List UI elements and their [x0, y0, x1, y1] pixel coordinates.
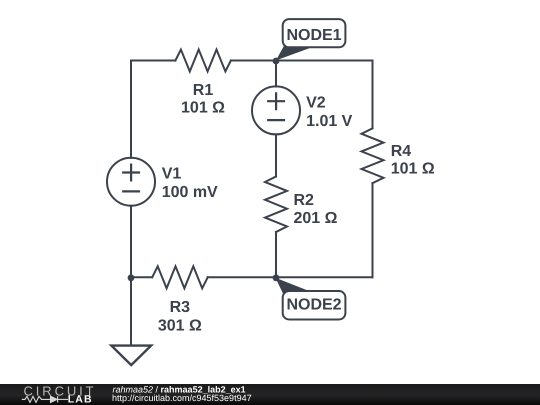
resistor R2	[265, 177, 287, 233]
svg-text:R1: R1	[193, 82, 214, 99]
ground symbol	[111, 346, 151, 366]
svg-text:101 Ω: 101 Ω	[391, 161, 435, 178]
wire bottom-left horizontal	[131, 276, 152, 278]
logo line to LAB	[58, 398, 68, 400]
svg-text:301 Ω: 301 Ω	[158, 318, 202, 335]
wire right vertical upper	[372, 61, 374, 129]
resistor R4	[362, 128, 384, 183]
wire top-left horizontal	[131, 60, 175, 62]
svg-text:http://circuitlab.com/c945f53e: http://circuitlab.com/c945f53e9t947	[112, 393, 252, 403]
svg-text:LAB: LAB	[68, 394, 93, 405]
svg-text:NODE1: NODE1	[286, 27, 341, 44]
NODE1 callout pointer	[276, 46, 312, 61]
footer bar	[0, 384, 540, 405]
voltage source V1	[107, 158, 155, 206]
wire R2 to node2	[275, 232, 277, 277]
svg-text:V1: V1	[162, 165, 182, 182]
NODE1 label box	[283, 19, 346, 47]
svg-text:201 Ω: 201 Ω	[294, 210, 338, 227]
V2 plus sign	[268, 93, 284, 109]
resistor R3	[152, 266, 208, 288]
wire V2 to R2	[275, 134, 277, 176]
NODE2 callout pointer	[275, 278, 311, 294]
wire left vertical upper	[130, 61, 132, 158]
wire right vertical lower	[372, 183, 374, 277]
NODE2 label box	[283, 291, 346, 320]
svg-text:R3: R3	[170, 299, 191, 316]
V2 minus sign	[268, 119, 284, 121]
wire bottom-right horizontal	[208, 276, 373, 278]
resistor R1	[175, 50, 231, 72]
node dot bottom-left junction	[128, 274, 135, 281]
svg-text:R4: R4	[391, 143, 412, 160]
wire V2 top lead	[275, 61, 277, 87]
svg-text:1.01 V: 1.01 V	[306, 113, 353, 130]
svg-text:101 Ω: 101 Ω	[181, 100, 225, 117]
svg-text:100 mV: 100 mV	[162, 184, 218, 201]
wire top-right horizontal	[231, 60, 373, 62]
svg-text:NODE2: NODE2	[286, 296, 341, 313]
logo diode	[51, 396, 58, 402]
ground lead wire	[130, 277, 132, 345]
V1 minus sign	[123, 190, 139, 192]
svg-text:R2: R2	[294, 192, 315, 209]
logo resistor zigzag	[22, 396, 50, 402]
svg-text:V2: V2	[306, 94, 326, 111]
V1 plus sign	[123, 165, 139, 181]
node dot NODE2 junction	[273, 274, 280, 281]
voltage source V2	[252, 86, 300, 134]
wire left vertical lower	[130, 206, 132, 278]
node dot NODE1 junction	[273, 58, 280, 65]
